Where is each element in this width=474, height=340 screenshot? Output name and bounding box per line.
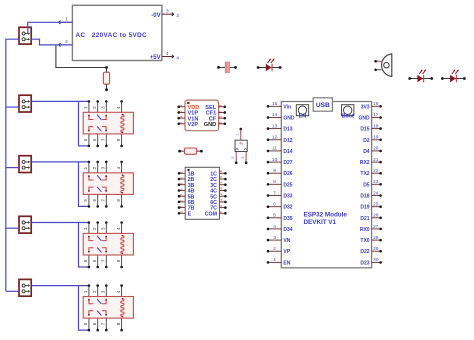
svg-text:TX0: TX0 xyxy=(360,238,369,244)
svg-text:7: 7 xyxy=(178,206,183,208)
svg-text:29: 29 xyxy=(373,246,379,252)
svg-text:2: 2 xyxy=(92,290,97,293)
svg-text:1: 1 xyxy=(178,171,183,173)
connector J1 (AC input) xyxy=(19,27,31,44)
relay K3 xyxy=(83,221,133,268)
svg-text:4: 4 xyxy=(166,51,169,56)
LED D1 xyxy=(257,59,282,72)
svg-text:D12: D12 xyxy=(283,138,292,144)
svg-text:11: 11 xyxy=(218,199,223,203)
svg-text:VN: VN xyxy=(283,238,290,244)
svg-text:4: 4 xyxy=(116,290,121,293)
ESP32 pin 3 (VN) xyxy=(267,235,291,244)
svg-text:4: 4 xyxy=(176,55,179,60)
svg-text:19: 19 xyxy=(373,135,379,141)
LED D3 xyxy=(441,70,466,83)
PS1 label AC 220VAC to 5VDC xyxy=(76,32,148,39)
svg-text:2: 2 xyxy=(231,156,235,158)
svg-text:13: 13 xyxy=(218,187,223,191)
ESP32 pin 30 (D23) xyxy=(360,257,381,266)
svg-text:TX2: TX2 xyxy=(360,171,369,177)
svg-text:20: 20 xyxy=(373,146,379,152)
ESP32 pin 19 (D2) xyxy=(363,135,382,144)
wire J1 pin1 to PS1 pin1 xyxy=(28,22,72,33)
svg-text:26: 26 xyxy=(373,213,379,219)
resistor R2 xyxy=(178,148,203,154)
U2 pin 14 (3C) xyxy=(210,181,226,189)
svg-text:4: 4 xyxy=(116,227,121,230)
slide switch SW1 xyxy=(231,128,247,164)
svg-text:D33: D33 xyxy=(283,194,292,200)
svg-text:15: 15 xyxy=(272,101,278,107)
svg-text:7: 7 xyxy=(101,199,106,202)
ESP32 EN button xyxy=(296,105,308,120)
svg-text:D27: D27 xyxy=(283,160,292,166)
svg-text:15: 15 xyxy=(218,176,223,180)
U2 pin 12 (5C) xyxy=(210,193,226,200)
svg-text:16: 16 xyxy=(373,101,379,107)
capacitor C1 xyxy=(217,62,237,73)
wire branch to relay K2 pin5 xyxy=(79,162,89,207)
U2 pin 16 (1C) xyxy=(210,170,226,177)
svg-text:11: 11 xyxy=(272,146,277,152)
svg-text:6: 6 xyxy=(178,200,183,202)
svg-text:2: 2 xyxy=(92,106,97,109)
svg-text:18: 18 xyxy=(373,123,379,129)
ESP32 pin 5 (D35) xyxy=(267,213,293,222)
svg-text:8: 8 xyxy=(273,179,276,185)
svg-text:Vin: Vin xyxy=(283,104,291,110)
svg-text:1: 1 xyxy=(83,227,88,230)
svg-text:14: 14 xyxy=(272,112,278,118)
svg-text:1: 1 xyxy=(236,134,240,136)
ESP32 pin 11 (D14) xyxy=(267,146,293,155)
svg-text:2: 2 xyxy=(92,166,97,169)
svg-text:7: 7 xyxy=(101,259,106,262)
svg-text:3: 3 xyxy=(241,156,245,158)
ESP32 pin 6 (D32) xyxy=(267,202,293,211)
svg-text:12: 12 xyxy=(272,135,278,141)
relay K2 xyxy=(83,161,133,208)
svg-text:D13: D13 xyxy=(283,127,292,133)
svg-text:16: 16 xyxy=(218,170,223,174)
svg-text:5: 5 xyxy=(83,322,88,325)
PS1 pin 4 stub and numbers xyxy=(162,51,180,61)
svg-text:3V3: 3V3 xyxy=(361,104,370,110)
wire J5 pin1 to relay K4 pin1 xyxy=(31,285,89,287)
svg-text:6: 6 xyxy=(218,116,223,118)
svg-text:3: 3 xyxy=(178,183,183,185)
svg-text:1: 1 xyxy=(83,106,88,109)
svg-text:D34: D34 xyxy=(283,227,292,233)
svg-text:6: 6 xyxy=(92,259,97,262)
svg-text:V2P: V2P xyxy=(188,122,199,128)
svg-text:3: 3 xyxy=(178,116,183,118)
connector J4 xyxy=(19,216,31,233)
svg-text:8: 8 xyxy=(178,211,183,213)
ESP32 pin 24 (D18) xyxy=(360,190,381,199)
svg-text:22: 22 xyxy=(373,168,379,174)
svg-text:3: 3 xyxy=(101,166,106,169)
ESP32 USB connector xyxy=(313,98,332,111)
U2 pin 5 (5B) xyxy=(178,194,195,200)
svg-text:E: E xyxy=(188,211,192,217)
ESP32 Boot button xyxy=(342,105,355,120)
svg-text:8: 8 xyxy=(116,259,121,262)
svg-text:8: 8 xyxy=(218,105,223,107)
U2 pin 11 (6C) xyxy=(210,199,226,206)
svg-text:D22: D22 xyxy=(360,249,369,255)
wire branch to relay K4 pin5 xyxy=(79,286,89,331)
svg-text:10: 10 xyxy=(272,157,278,163)
connector J5 xyxy=(19,279,31,296)
ESP32 pin 26 (D21) xyxy=(360,213,381,222)
svg-text:D32: D32 xyxy=(283,205,292,211)
svg-text:USB: USB xyxy=(316,102,330,109)
IC U1 body (power monitor) xyxy=(185,100,219,131)
svg-text:4: 4 xyxy=(178,121,183,124)
U2 pin 6 (6B) xyxy=(178,200,195,206)
svg-text:COM: COM xyxy=(205,211,218,217)
U1 pin 5 (GND) xyxy=(204,122,226,128)
svg-text:25: 25 xyxy=(373,202,379,208)
U2 pin 15 (2C) xyxy=(210,176,226,183)
ESP32 pin 1 (EN) xyxy=(267,257,291,266)
svg-text:D15: D15 xyxy=(360,127,369,133)
svg-text:4u: 4u xyxy=(239,142,243,146)
wire J2 pin2 to neutral rail xyxy=(6,106,19,108)
ESP32 pin 9 (D26) xyxy=(267,168,293,177)
wire branch to relay K3 pin5 xyxy=(79,223,89,268)
ESP32 pin 14 (GND) xyxy=(267,112,295,121)
svg-text:2: 2 xyxy=(65,39,68,44)
power supply module PS1 (AC 220VAC to 5VDC) xyxy=(72,5,161,60)
U1 pin 8 (SEL) xyxy=(205,105,226,111)
LED D2 xyxy=(408,70,433,83)
ESP32 pin 13 (D13) xyxy=(267,123,293,132)
svg-text:28: 28 xyxy=(373,235,379,241)
ESP32 pin 4 (D34) xyxy=(267,224,293,233)
ESP32 pin 16 (3V3) xyxy=(361,101,382,110)
svg-text:7: 7 xyxy=(101,322,106,325)
svg-text:4: 4 xyxy=(116,166,121,169)
PS1 pin name -0V xyxy=(151,13,160,19)
svg-text:3: 3 xyxy=(273,235,276,241)
ESP32 pin 27 (RX0) xyxy=(360,224,382,233)
svg-text:D23: D23 xyxy=(360,260,369,266)
svg-text:AC 220VAC to 5VDC: AC 220VAC to 5VDC xyxy=(76,32,148,39)
svg-text:D35: D35 xyxy=(283,216,292,222)
svg-text:D19: D19 xyxy=(360,205,369,211)
relay K4 xyxy=(83,284,133,331)
svg-text:21: 21 xyxy=(373,157,379,163)
U2 pin 2 (2B) xyxy=(178,177,195,183)
svg-text:D25: D25 xyxy=(283,182,292,188)
U2 pin 8 (E) xyxy=(178,211,192,217)
svg-text:30: 30 xyxy=(373,257,379,263)
svg-text:7: 7 xyxy=(273,190,276,196)
svg-text:3: 3 xyxy=(176,13,179,18)
svg-text:3: 3 xyxy=(101,290,106,293)
U2 pin 13 (4C) xyxy=(210,187,226,194)
svg-text:13: 13 xyxy=(272,123,278,129)
svg-text:8: 8 xyxy=(116,199,121,202)
PS1 pin name +5V xyxy=(150,55,161,61)
U2 pin 7 (7B) xyxy=(178,206,195,212)
ESP32 pin 7 (D33) xyxy=(267,190,293,199)
svg-text:1: 1 xyxy=(178,105,183,107)
ESP32 pin 25 (D19) xyxy=(360,202,381,211)
ESP32 pin 8 (D25) xyxy=(267,179,293,188)
svg-text:8: 8 xyxy=(116,138,121,141)
ESP32 pin 10 (D27) xyxy=(267,157,293,166)
svg-text:-0V: -0V xyxy=(151,13,160,19)
relay K1 xyxy=(83,100,133,147)
svg-text:17: 17 xyxy=(373,112,379,118)
svg-text:5: 5 xyxy=(273,213,276,219)
U2 pin 9 (COM) xyxy=(205,211,227,217)
PS1 pin 1 stub and number xyxy=(59,16,73,24)
svg-text:7: 7 xyxy=(218,110,223,112)
wire J4 pin2 to neutral rail xyxy=(6,227,19,229)
svg-text:9: 9 xyxy=(273,168,276,174)
svg-text:GND: GND xyxy=(283,116,295,122)
ESP32 pin 22 (TX2) xyxy=(360,168,381,177)
svg-text:GND: GND xyxy=(204,122,216,128)
svg-text:1: 1 xyxy=(83,290,88,293)
ESP32 module body xyxy=(281,102,371,268)
ESP32 pin 29 (D22) xyxy=(360,246,381,255)
ESP32 pin 28 (TX0) xyxy=(360,235,381,244)
ESP32 pin 2 (VP) xyxy=(267,246,291,255)
svg-text:2: 2 xyxy=(178,110,183,112)
wire neutral rail (left) xyxy=(6,39,19,291)
svg-text:7: 7 xyxy=(101,138,106,141)
wire J2 pin1 to relay K1 pin1 xyxy=(31,100,89,102)
svg-text:D21: D21 xyxy=(360,216,369,222)
U1 pin 7 (CF1) xyxy=(206,110,226,116)
wire J5 pin2 to neutral rail xyxy=(6,290,19,292)
ESP32 module label xyxy=(304,212,348,226)
wire J4 pin1 to relay K3 pin1 xyxy=(31,222,89,224)
svg-text:6: 6 xyxy=(92,322,97,325)
svg-text:EN: EN xyxy=(299,114,307,120)
svg-text:27: 27 xyxy=(373,224,379,230)
svg-text:5: 5 xyxy=(178,194,183,196)
svg-text:D14: D14 xyxy=(283,149,292,155)
svg-text:2: 2 xyxy=(178,177,183,179)
svg-text:9: 9 xyxy=(218,211,223,213)
svg-text:6: 6 xyxy=(92,138,97,141)
svg-text:23: 23 xyxy=(373,179,379,185)
wire PS1 pin2 to resistor R1 (black) xyxy=(56,46,105,68)
svg-text:1: 1 xyxy=(273,257,276,263)
U2 pin 1 (1B) xyxy=(178,171,195,177)
svg-text:RX0: RX0 xyxy=(360,227,370,233)
transistor Q1 (TO-92 outline) xyxy=(374,54,391,77)
U2 pin 4 (4B) xyxy=(178,188,195,195)
ESP32 pin 15 (Vin) xyxy=(267,101,291,110)
svg-text:D2: D2 xyxy=(363,138,370,144)
ESP32 pin 12 (D12) xyxy=(267,135,293,144)
svg-text:D26: D26 xyxy=(283,171,292,177)
svg-text:ESP32 Module: ESP32 Module xyxy=(304,212,348,219)
wire branch to relay K1 pin5 xyxy=(79,101,89,145)
svg-text:Boot: Boot xyxy=(342,114,354,120)
svg-text:1: 1 xyxy=(83,166,88,169)
svg-text:6: 6 xyxy=(273,202,276,208)
U2 pin 10 (7C) xyxy=(210,204,226,212)
ESP32 pin 21 (RX2) xyxy=(360,157,382,166)
svg-text:2: 2 xyxy=(273,246,276,252)
svg-text:4: 4 xyxy=(116,106,121,109)
PS1 pin 2 stub and number xyxy=(59,39,73,47)
ESP32 pin 18 (D15) xyxy=(360,123,381,132)
wire J1 pin2 to PS1 pin2 xyxy=(31,39,72,45)
svg-text:2: 2 xyxy=(92,227,97,230)
svg-text:RX2: RX2 xyxy=(360,160,370,166)
svg-text:3: 3 xyxy=(101,227,106,230)
IC U2 body (ULN2803) xyxy=(185,167,219,219)
U1 pin 6 (CF) xyxy=(209,116,226,122)
svg-text:EN: EN xyxy=(283,260,290,266)
svg-text:GND: GND xyxy=(358,116,370,122)
svg-text:8: 8 xyxy=(116,322,121,325)
resistor R1 xyxy=(103,66,109,91)
U1 pin 3 (V1N) xyxy=(177,116,198,122)
ESP32 pin 23 (D5) xyxy=(363,179,382,188)
svg-text:5: 5 xyxy=(83,199,88,202)
svg-text:+5V: +5V xyxy=(150,55,161,61)
svg-text:4: 4 xyxy=(273,224,276,230)
svg-text:D18: D18 xyxy=(360,194,369,200)
U1 pin 4 (V2P) xyxy=(177,121,198,128)
svg-text:24: 24 xyxy=(373,190,379,196)
connector J3 xyxy=(19,156,31,173)
svg-text:1: 1 xyxy=(65,16,68,21)
PS1 pin 3 stub and numbers xyxy=(162,9,180,19)
U1 pin 1 (VDD) xyxy=(177,105,199,111)
svg-text:DEVKIT V1: DEVKIT V1 xyxy=(304,219,337,226)
svg-text:12: 12 xyxy=(218,193,223,197)
connector J2 xyxy=(19,95,31,112)
svg-text:3: 3 xyxy=(101,106,106,109)
ESP32 pin 17 (GND) xyxy=(358,112,381,121)
svg-text:3: 3 xyxy=(166,9,169,14)
svg-text:6: 6 xyxy=(92,199,97,202)
svg-text:VP: VP xyxy=(283,249,290,255)
svg-text:D5: D5 xyxy=(363,182,370,188)
svg-text:4: 4 xyxy=(178,188,183,191)
U2 pin 3 (3B) xyxy=(178,183,195,189)
U1 pin 2 (V1P) xyxy=(177,110,198,116)
svg-text:5: 5 xyxy=(83,259,88,262)
wire J3 pin1 to relay K2 pin1 xyxy=(31,161,89,163)
wire J3 pin2 to neutral rail xyxy=(6,167,19,169)
ESP32 pin 20 (D4) xyxy=(363,146,382,155)
svg-text:5: 5 xyxy=(83,138,88,141)
svg-text:5: 5 xyxy=(218,122,223,124)
svg-text:D4: D4 xyxy=(363,149,370,155)
